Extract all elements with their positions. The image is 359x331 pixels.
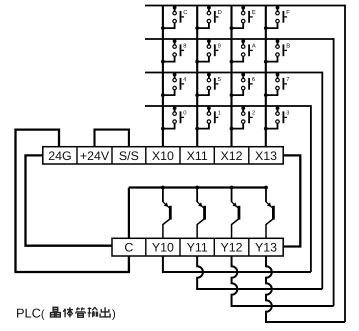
wire row 2 right drop to Y-side at x=333.6 [333,38,335,306]
junction dot key E on row line [241,6,245,10]
pushbutton key 0 bottom wire to column bus [163,123,175,128]
wire 24G to C outer loop (left side) [16,130,129,272]
transistor Q2 base bar [203,206,206,220]
pushbutton key F bottom wire to column bus [266,23,278,28]
wire row 3 right drop to Y-side at x=322.3 [321,72,323,289]
pushbutton key 8 lower contact circle [173,53,177,57]
pushbutton key A upper contact circle [241,45,245,49]
pushbutton key F actuator bar and tick [283,11,285,23]
junction dot key 3 on row line [276,106,280,110]
pushbutton key F top stub wire [277,6,279,12]
pushbutton key 2 top stub wire [242,106,244,112]
pushbutton key 6 actuator bar and tick [248,78,250,90]
svg-text:Y12: Y12 [221,241,243,255]
pushbutton key E actuator bar and tick [248,11,250,23]
wire column bus X11 vertical x=197.2 [196,6,198,148]
pushbutton key 6 bottom wire to column bus [232,90,244,95]
transistor Q1 (output Y10) collector wire [161,186,165,190]
junction dot key 1 on column bus [195,127,199,131]
svg-text:7: 7 [286,77,289,83]
wire row 4 right drop to Y-side at x=310.9 [310,105,312,272]
pushbutton key C lower contact circle [173,19,177,23]
svg-text:9: 9 [218,43,221,50]
transistor Q1 base bar [169,206,172,220]
transistor Q3 (output Y12) collector wire [230,186,234,190]
terminal S/S [111,147,113,164]
pushbutton key 1 bottom wire to column bus [197,123,209,128]
pushbutton key C upper contact circle [173,11,177,15]
transistor Q4 (output Y13) collector wire [264,186,268,190]
pushbutton key 2 lower contact circle [241,120,245,124]
svg-text:PLC(: PLC( [16,306,45,321]
junction dot key D on column bus [195,26,199,30]
svg-text:6: 6 [252,76,255,83]
pushbutton key 3 actuator bar and tick [283,111,285,123]
PLC input terminal strip outline [43,147,283,164]
junction dot key 6 on column bus [230,93,234,97]
wire output common collector rail [129,186,266,188]
junction dot key 3 on column bus [264,127,268,131]
pushbutton key E top stub wire [242,6,244,12]
svg-text:Y11: Y11 [187,241,208,255]
junction dot key C on column bus [161,26,165,30]
pushbutton key 7 actuator bar and tick [283,78,285,90]
svg-text:5: 5 [218,77,221,83]
pushbutton key 7 top stub wire [277,73,279,79]
junction dot key F on row line [276,6,280,10]
svg-text:1: 1 [218,111,221,117]
svg-text:B: B [286,44,290,50]
terminal X13 [248,147,250,164]
wire column bus X13 vertical x=265.8 [265,6,267,148]
junction dot key 2 on row line [241,106,245,110]
wire output Y13 route to key row 1 [266,256,345,322]
junction dot key A on column bus [230,60,234,64]
pushbutton key 3 bottom wire to column bus [266,123,278,128]
pushbutton key 9 actuator bar and tick [214,44,216,56]
pushbutton key 7 lower contact circle [276,86,280,90]
svg-text:F: F [286,10,290,16]
pushbutton key 4 upper contact circle [173,78,177,82]
caption Chinese text 晶体管输出 (transistor output) [51,307,61,317]
pushbutton key 9 top stub wire [208,39,210,45]
svg-text:C: C [183,9,187,16]
transistor Q3 base bar [238,206,241,220]
pushbutton key 9 lower contact circle [207,53,211,57]
terminal Y13 [248,238,250,256]
terminal Y10 [145,238,147,256]
svg-text:+24V: +24V [80,149,110,163]
pushbutton key C top stub wire [174,6,176,12]
pushbutton key E bottom wire to column bus [232,23,244,28]
transistor Q2 emitter wire to terminal Y11 [197,219,204,238]
pushbutton key 7 upper contact circle [276,78,280,82]
pushbutton key 4 lower contact circle [173,86,177,90]
pushbutton key 6 upper contact circle [241,78,245,82]
junction dot key 7 on row line [276,73,280,77]
pushbutton key C actuator bar and tick [180,11,182,23]
pushbutton key A actuator bar and tick [248,44,250,56]
junction dot key 9 on column bus [195,60,199,64]
pushbutton key B bottom wire to column bus [266,56,278,61]
wire output Y10 route to key row 4 [163,256,311,272]
pushbutton key D lower contact circle [207,19,211,23]
pushbutton key 5 top stub wire [208,73,210,79]
pushbutton key 2 bottom wire to column bus [232,123,244,128]
pushbutton key 7 bottom wire to column bus [266,90,278,95]
transistor Q2 collector lead with arrow [197,202,204,209]
svg-text:X10: X10 [152,149,174,163]
pushbutton key 4 bottom wire to column bus [163,90,175,95]
svg-text:): ) [112,309,116,321]
pushbutton key 0 actuator bar and tick [180,111,182,123]
transistor Q4 emitter wire to terminal Y13 [266,219,273,238]
svg-text:Y13: Y13 [255,241,277,255]
pushbutton key D actuator bar and tick [214,11,216,23]
svg-text:A: A [252,44,256,50]
junction dot key 4 on column bus [161,93,165,97]
pushbutton key 8 top stub wire [174,39,176,45]
pushbutton key 5 actuator bar and tick [214,78,216,90]
wire row 3 net (keys 4567) horizontal y=72.5 [145,72,322,74]
transistor Q3 emitter wire to terminal Y12 [232,219,239,238]
junction dot key 9 on row line [207,39,211,43]
pushbutton key A top stub wire [242,39,244,45]
svg-text:8: 8 [183,43,186,50]
svg-text:X13: X13 [255,149,277,163]
pushbutton key D bottom wire to column bus [197,23,209,28]
junction dot key B on row line [276,39,280,43]
svg-text:3: 3 [286,110,289,117]
svg-text:X12: X12 [221,149,243,163]
wire row 2 net (keys 89AB) horizontal y=39 [145,38,334,40]
terminal Y12 [213,238,215,256]
junction dot key 5 on row line [207,73,211,77]
pushbutton key 4 top stub wire [174,73,176,79]
pushbutton key E upper contact circle [241,11,245,15]
pushbutton key 1 actuator bar and tick [214,111,216,123]
transistor Q3 collector lead with arrow [232,202,239,209]
wire column bus X10 vertical x=162.9 [162,6,164,148]
transistor Q1 collector lead with arrow [163,202,170,209]
wire row 4 net (keys 0123) horizontal y=106 [145,105,311,107]
wire jumper +24V to S/S [95,130,129,147]
svg-text:S/S: S/S [119,149,139,163]
pushbutton key 5 bottom wire to column bus [197,90,209,95]
wire row 1 right drop to Y-side at x=345 [344,5,346,322]
svg-text:C: C [124,241,133,255]
pushbutton key 2 actuator bar and tick [248,111,250,123]
pushbutton key B lower contact circle [276,53,280,57]
junction dot key 8 on column bus [161,60,165,64]
svg-text:E: E [252,10,256,16]
svg-text:2: 2 [252,110,255,117]
junction dot key 2 on column bus [230,127,234,131]
PLC output terminal strip outline [112,238,283,256]
pushbutton key 6 top stub wire [242,73,244,79]
junction dot key F on column bus [264,26,268,30]
pushbutton key 4 actuator bar and tick [180,78,182,90]
pushbutton key 5 lower contact circle [207,86,211,90]
junction dot key 5 on column bus [195,93,199,97]
pushbutton key C bottom wire to column bus [163,23,175,28]
pushbutton key A bottom wire to column bus [232,56,244,61]
svg-text:0: 0 [183,110,186,117]
pushbutton key 3 upper contact circle [276,112,280,116]
pushbutton key E lower contact circle [241,19,245,23]
terminal Y11 [179,238,181,256]
junction dot key 4 on row line [173,73,177,77]
pushbutton key A lower contact circle [241,53,245,57]
junction dot key C on row line [173,6,177,10]
junction dot key 7 on column bus [264,93,268,97]
terminal X12 [213,147,215,164]
pushbutton key 0 lower contact circle [173,120,177,124]
svg-text:D: D [218,10,222,16]
pushbutton key 8 bottom wire to column bus [163,56,175,61]
pushbutton key 9 bottom wire to column bus [197,56,209,61]
pushbutton key 8 upper contact circle [173,45,177,49]
transistor Q4 collector lead with arrow [266,202,273,209]
pushbutton key 1 upper contact circle [207,112,211,116]
terminal +24V [76,147,78,164]
transistor Q4 base bar [272,206,275,220]
svg-text:24G: 24G [48,149,71,163]
pushbutton key B top stub wire [277,39,279,45]
wire rail riser to terminal C [128,188,130,239]
svg-text:Y10: Y10 [152,241,174,255]
pushbutton key 8 actuator bar and tick [180,44,182,56]
pushbutton key F upper contact circle [276,11,280,15]
terminal X10 [145,147,147,164]
pushbutton key 3 lower contact circle [276,120,280,124]
junction dot key D on row line [207,6,211,10]
junction dot key A on row line [241,39,245,43]
junction dot key 8 on row line [173,39,177,43]
junction dot key 0 on column bus [161,127,165,131]
pushbutton key 0 top stub wire [174,106,176,112]
pushbutton key 1 lower contact circle [207,120,211,124]
terminal X11 [179,147,181,164]
pushbutton key 0 upper contact circle [173,112,177,116]
transistor Q2 (output Y11) collector wire [195,186,199,190]
pushbutton key B upper contact circle [276,45,280,49]
wire service supply loop (strip left edge to C terminal left) [26,155,113,245]
junction dot key 1 on row line [207,106,211,110]
pushbutton key 5 upper contact circle [207,78,211,82]
pushbutton key 3 top stub wire [277,106,279,112]
junction dot key B on column bus [264,60,268,64]
pushbutton key D upper contact circle [207,11,211,15]
junction dot key 6 on row line [241,73,245,77]
wire row 1 net (keys CDEF) horizontal y=5.5 [145,5,345,7]
pushbutton key D top stub wire [208,6,210,12]
svg-text:X11: X11 [187,149,208,163]
pushbutton key 9 upper contact circle [207,45,211,49]
wire column bus X12 vertical x=231.5 [230,6,232,148]
wire output Y11 route to key row 3 [197,256,322,289]
pushbutton key 1 top stub wire [208,106,210,112]
pushbutton key F lower contact circle [276,19,280,23]
pushbutton key 6 lower contact circle [241,86,245,90]
junction dot key 0 on row line [173,106,177,110]
junction dot key E on column bus [230,26,234,30]
transistor Q1 emitter wire to terminal Y10 [163,219,170,238]
wire link top strip right edge to bottom strip right edge [283,155,300,246]
pushbutton key B actuator bar and tick [283,44,285,56]
pushbutton key 2 upper contact circle [241,112,245,116]
wire output Y12 route to key row 2 [232,256,334,306]
